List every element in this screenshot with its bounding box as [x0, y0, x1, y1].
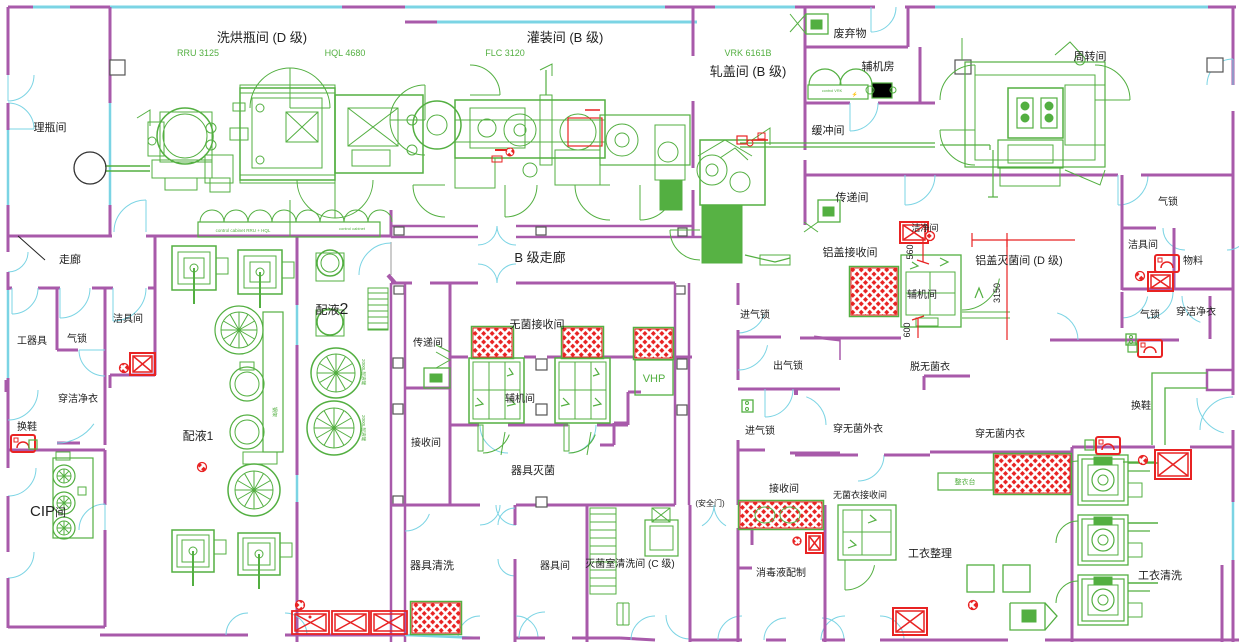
wall x825 [824, 505, 827, 642]
autoclave [645, 520, 678, 556]
svg-text:气锁: 气锁 [1158, 195, 1178, 208]
wall x450 [449, 283, 452, 505]
svg-text:洗烘瓶间 (D 级): 洗烘瓶间 (D 级) [217, 30, 307, 45]
svg-text:辅机间: 辅机间 [907, 288, 937, 301]
svg-text:缓冲间: 缓冲间 [812, 123, 845, 137]
wall x738 lower [737, 528, 740, 642]
wall x105 [104, 288, 107, 445]
wall y337 [738, 336, 781, 339]
passbox wuliao [1148, 272, 1173, 291]
dimension lines [972, 239, 1075, 241]
bins [967, 565, 994, 592]
svg-text:560: 560 [905, 244, 915, 259]
reddot bins [969, 601, 978, 610]
svg-text:穿无菌内衣: 穿无菌内衣 [975, 427, 1025, 440]
svg-text:配液2: 配液2 [316, 301, 349, 318]
wall y450 CIP top [8, 449, 105, 452]
door arc jinqisuo [765, 389, 793, 417]
svg-text:工衣清洗: 工衣清洗 [1138, 568, 1182, 582]
box huanxie top [1126, 334, 1136, 345]
steel frame [263, 312, 283, 452]
square mixer tank [238, 533, 280, 575]
wall x515 [514, 505, 517, 525]
wall x805 [804, 7, 807, 47]
none [835, 357, 884, 359]
door arc peiye2 [359, 243, 391, 275]
wall x1174 [1173, 228, 1176, 290]
washing machine [1078, 515, 1128, 565]
svg-text:脱无菌衣: 脱无菌衣 [910, 360, 950, 373]
svg-text:传递间: 传递间 [413, 336, 443, 349]
wall x57 [56, 288, 59, 350]
door arc corridor left [8, 252, 28, 272]
svg-text:换鞋: 换鞋 [17, 420, 37, 433]
svg-text:器具清洗: 器具清洗 [410, 559, 454, 572]
butterfly qisuo/wuliao [1163, 228, 1185, 250]
wall y425 [450, 424, 479, 427]
hatch VHP top [635, 329, 672, 358]
door arc jieshoujian [405, 514, 429, 531]
tank peiye1 big [228, 464, 280, 516]
machine zhouzhuan washer [965, 62, 1105, 167]
tank peiye1 top [215, 306, 263, 354]
hatch zhengyi [995, 455, 1070, 493]
passbox row1 [292, 611, 329, 634]
wall y357 west of VHP [600, 356, 635, 359]
wall x689 shaft [688, 283, 691, 505]
wall y47 feiqiwu bottom [805, 46, 908, 49]
entry door right [1197, 398, 1224, 433]
door arc huanchongjian [850, 103, 878, 131]
svg-text:器具灭菌: 器具灭菌 [511, 464, 555, 477]
wall y450 [738, 449, 765, 452]
svg-text:VHP: VHP [643, 373, 666, 385]
conveyor line [740, 142, 935, 144]
passbox chuandijian right [818, 200, 840, 222]
wall y103 fujifang bottom [805, 102, 850, 105]
passbox bottom right [893, 608, 927, 635]
wall y376 [924, 375, 970, 378]
svg-text:进气锁: 进气锁 [740, 308, 770, 321]
wall left outer [7, 7, 10, 75]
box jinqisuo [742, 400, 753, 412]
wall y447 [1072, 446, 1155, 449]
svg-text:control VRK: control VRK [822, 89, 843, 93]
svg-text:灌装间 (B 级): 灌装间 (B 级) [527, 30, 604, 45]
tank peiye2 b [317, 309, 343, 335]
svg-text:消毒液配制: 消毒液配制 [756, 566, 806, 579]
wall niche right [1207, 370, 1233, 390]
wall y175 zhouzhuanjian bottom [805, 174, 1118, 177]
svg-text:理瓶间: 理瓶间 [34, 120, 67, 134]
butterfly bottom right1 [821, 616, 845, 640]
wall FLC top [405, 21, 437, 24]
wall x391 lower [390, 283, 393, 642]
wall y338 tuowujunyi top [800, 337, 901, 340]
svg-text:control cabinet RRU + HQL: control cabinet RRU + HQL [216, 228, 271, 233]
butterfly bottom peiye1 [226, 613, 248, 635]
hatch jieshou right [740, 502, 822, 528]
svg-text:洁具间: 洁具间 [113, 312, 143, 325]
door arc chuanwujunwaiyi [858, 455, 884, 481]
svg-text:出气锁: 出气锁 [773, 359, 803, 372]
svg-text:600: 600 [902, 322, 912, 337]
wall x391 upper [390, 210, 393, 237]
wall y455 [795, 454, 858, 457]
door arc qiju-miejun L [480, 425, 508, 453]
svg-text:工衣整理: 工衣整理 [908, 546, 952, 560]
door arc qisuo [60, 288, 90, 318]
svg-text:穿洁净衣: 穿洁净衣 [58, 392, 98, 405]
svg-text:气锁: 气锁 [1140, 308, 1160, 321]
door arc huanxie right [1057, 313, 1078, 340]
passbox row3 [371, 611, 407, 634]
wall y340 [1050, 339, 1179, 342]
jamb box liping [110, 60, 125, 75]
wall B-corridor top lower [391, 236, 478, 239]
wall y289 [1122, 288, 1233, 291]
wall B-corridor bottom [391, 282, 412, 285]
svg-text:RRU 3125: RRU 3125 [177, 48, 219, 58]
svg-text:VRK 6161B: VRK 6161B [724, 48, 771, 58]
svg-text:器具间: 器具间 [540, 559, 570, 572]
red fixture [1096, 437, 1120, 454]
machine HQL tunnel [240, 88, 335, 180]
wall y228 [1122, 227, 1156, 230]
wall step right of LAF [627, 392, 630, 425]
wall CIP right [104, 450, 107, 505]
svg-text:接收间: 接收间 [769, 482, 799, 495]
svg-text:无菌衣接收间: 无菌衣接收间 [833, 489, 887, 500]
svg-text:⚡: ⚡ [852, 91, 858, 98]
wall x1122 lower [1121, 292, 1124, 328]
passbox gongyiqingxi [1155, 450, 1191, 479]
reddot CIP [198, 463, 207, 472]
svg-text:废弃物: 废弃物 [834, 26, 867, 40]
door arc chuanjiejingyi [57, 424, 94, 443]
hatch wujunjieshou R [563, 328, 602, 357]
notch [738, 527, 752, 530]
door arc left wall [8, 75, 34, 101]
svg-text:HQL 4680: HQL 4680 [325, 48, 366, 58]
machine transition [600, 115, 690, 165]
passbox chuandijian center [424, 368, 450, 388]
stairs [590, 508, 616, 594]
tank peiye1 mid1 [230, 367, 264, 401]
passbox jiejujian [130, 353, 155, 375]
svg-text:B 级走廊: B 级走廊 [514, 250, 565, 265]
wall y357 [450, 356, 468, 359]
svg-text:2000L配液罐: 2000L配液罐 [360, 415, 367, 442]
safety door arcs [702, 505, 714, 526]
tank peiye2 a [317, 250, 343, 276]
LAF unit [555, 358, 610, 423]
svg-text:洁具间: 洁具间 [1128, 238, 1158, 251]
svg-text:穿无菌外衣: 穿无菌外衣 [833, 422, 883, 435]
svg-text:无菌接收间: 无菌接收间 [510, 317, 565, 331]
wall x155 [154, 237, 157, 375]
red fixture [1155, 255, 1179, 272]
CIP unit [53, 458, 93, 538]
passbox row2 [332, 611, 369, 634]
jamb zhouzhuan left [955, 60, 971, 74]
wall x690 corridor [689, 505, 692, 590]
square tank [238, 250, 282, 294]
svg-text:传递间: 传递间 [836, 190, 869, 204]
door arc jinqisuo entry [738, 315, 764, 333]
red fixture [11, 435, 35, 452]
butterfly bottom miejunshi [631, 616, 655, 640]
stub [388, 275, 395, 283]
wall top-left [8, 6, 33, 9]
svg-text:辅机间: 辅机间 [505, 392, 535, 405]
passbox jiejingjian top [900, 222, 928, 243]
door arc CIP left [8, 468, 36, 496]
bench zhengyitai [938, 473, 993, 490]
jamb left [5, 380, 10, 392]
square tank [172, 246, 216, 290]
passbox feiqiwu [806, 14, 828, 34]
wall y236 west [8, 235, 112, 238]
cabinet fujifang [809, 69, 841, 85]
wall x405 [404, 283, 407, 642]
tank peiye1 mid2 [230, 415, 264, 449]
VHP room box [635, 360, 673, 395]
jamb right top [1207, 58, 1223, 72]
wall liping right [109, 7, 112, 103]
table liping [74, 152, 106, 184]
wall zoulang bottom [8, 287, 12, 290]
hatch lvgaijieshou [851, 268, 897, 315]
mixer peiye2 big1 [311, 348, 361, 398]
door bottom qijujian [519, 612, 545, 638]
wall x1210 [1209, 296, 1212, 339]
washing machine [1078, 455, 1128, 505]
wall y452 [930, 451, 1072, 454]
door arc feiqiwu [871, 7, 896, 32]
svg-text:物料: 物料 [1183, 254, 1203, 267]
wall x1222 inner [1221, 565, 1224, 642]
butterfly bottom qijuqingxi [458, 616, 480, 638]
hatch wujunjieshou L [473, 328, 512, 357]
svg-text:control cabinet: control cabinet [339, 226, 366, 231]
wall x908 [907, 7, 910, 47]
svg-text:整衣台: 整衣台 [955, 477, 976, 486]
washing machine [1078, 575, 1128, 625]
machine RRU washer [157, 108, 213, 164]
square mixer tank [172, 530, 214, 572]
wall x1072 [1071, 447, 1074, 642]
svg-text:工器具: 工器具 [17, 335, 47, 347]
door arc y175 [1118, 175, 1148, 205]
red marks FLC [568, 118, 602, 146]
wall y388 chuandijian bottom [405, 387, 450, 390]
green door arc lvgai [962, 279, 999, 310]
wall y350 [57, 349, 78, 352]
svg-text:3150: 3150 [992, 283, 1002, 303]
svg-text:铝盖灭菌间 (D 级): 铝盖灭菌间 (D 级) [975, 253, 1062, 267]
butterfly door corridor top [478, 226, 497, 245]
machine VRK capper [698, 140, 752, 156]
svg-text:配液1: 配液1 [183, 428, 214, 443]
door arc liping [114, 200, 146, 232]
svg-text:周转间: 周转间 [1074, 49, 1107, 63]
svg-text:灭菌室清洗间 (C 级): 灭菌室清洗间 (C 级) [585, 557, 674, 570]
butterfly door y505 [480, 505, 500, 525]
door arc jiejujian [113, 288, 146, 321]
svg-text:接收间: 接收间 [411, 436, 441, 449]
svg-text:换鞋: 换鞋 [1131, 399, 1151, 412]
svg-text:轧盖间 (B 级): 轧盖间 (B 级) [710, 64, 787, 79]
wall B-corridor top upper [391, 225, 478, 228]
wall y505 [405, 504, 480, 507]
svg-text:钢架: 钢架 [271, 407, 278, 417]
svg-text:洁净间: 洁净间 [911, 222, 938, 233]
svg-text:铝盖接收间: 铝盖接收间 [823, 245, 878, 259]
wall peiye1 right [296, 236, 299, 305]
red marks conveyor [737, 136, 747, 144]
door arc huanxie [8, 390, 38, 420]
butterfly bottom xiaodu [764, 618, 786, 640]
passbox xiaodu [806, 533, 823, 553]
wall right outer [1232, 7, 1235, 85]
svg-text:(安全门): (安全门) [695, 498, 725, 508]
wall x1122 [1121, 175, 1124, 228]
door leaf liping2 [18, 236, 45, 260]
svg-text:进气锁: 进气锁 [745, 424, 775, 437]
door arc qisuo lower [1122, 297, 1148, 319]
fujijian unit right [901, 255, 961, 327]
wall CIP bottom [8, 626, 105, 629]
svg-text:气锁: 气锁 [67, 332, 87, 345]
svg-text:走廊: 走廊 [59, 252, 81, 266]
svg-text:2000L配液罐: 2000L配液罐 [360, 359, 367, 386]
reddot jiejujian [120, 364, 129, 373]
bench huanxie [1152, 373, 1207, 445]
thin divider [839, 337, 841, 360]
wall bottom west [100, 634, 248, 637]
wall x587 [586, 505, 589, 642]
door arc jinqisuo2 [806, 397, 826, 425]
red fixture [1138, 340, 1162, 357]
svg-text:辅机房: 辅机房 [862, 59, 895, 73]
LAF unit [469, 358, 524, 423]
door arc qiju-miejun R [568, 425, 596, 453]
control cabinet scallops [200, 210, 224, 222]
wall step [614, 422, 628, 425]
wall y375 under passbox [110, 374, 155, 377]
butterfly door corridor bottom [478, 264, 497, 283]
wall y389 [738, 388, 840, 391]
wall y443 [57, 442, 80, 445]
LAF wujunyi [838, 505, 896, 560]
door arc gongqiju [12, 288, 38, 314]
wall x920 fujifang right [919, 47, 922, 103]
wall x738 upper [737, 283, 740, 305]
door arc y175 left [905, 175, 935, 205]
mixer peiye2 big2 [307, 401, 361, 455]
hatch bottom qijuqingxi [412, 603, 460, 633]
jamb corridor [394, 227, 404, 235]
wall x675 shaft [674, 283, 677, 505]
svg-text:FLC 3120: FLC 3120 [485, 48, 525, 58]
svg-text:穿洁净衣: 穿洁净衣 [1176, 305, 1216, 318]
wall x693 divider [692, 7, 695, 56]
machine FLC filler [390, 85, 425, 120]
